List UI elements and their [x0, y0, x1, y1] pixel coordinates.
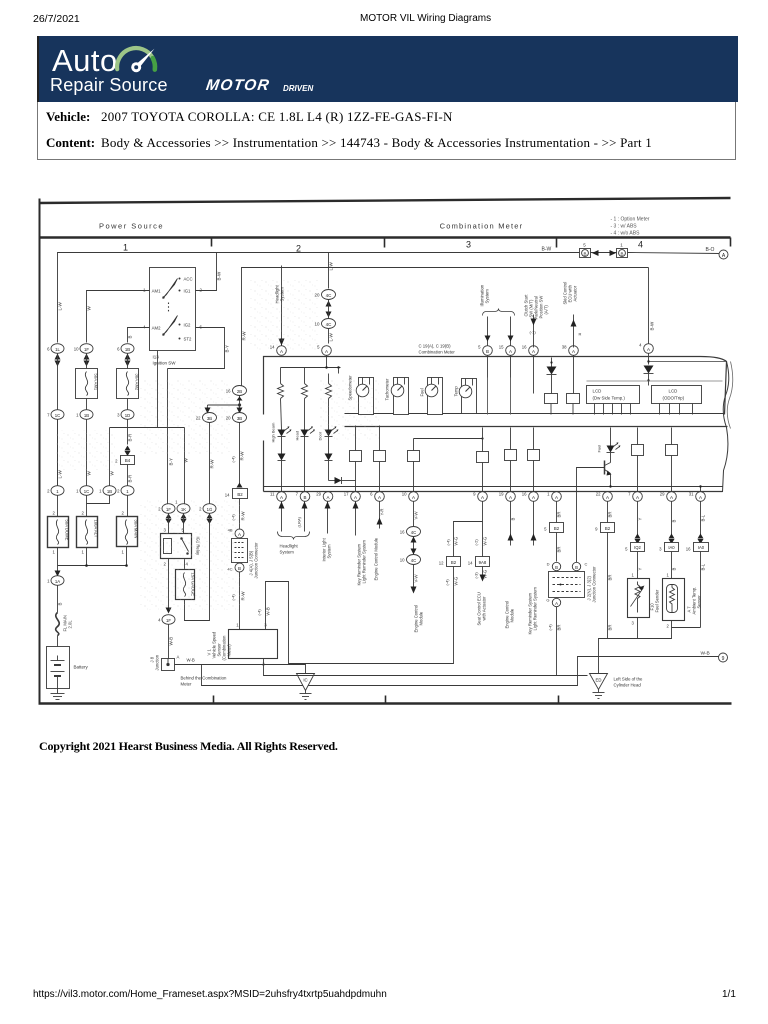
fuse 50A AM1: [76, 369, 99, 399]
svg-text:7: 7: [296, 492, 299, 497]
wire 86 down: [86, 354, 88, 369]
svg-text:B: B: [672, 568, 677, 571]
wire J45 to VSS: [239, 572, 241, 630]
svg-text:1C: 1C: [84, 489, 90, 494]
svg-text:1: 1: [123, 243, 128, 253]
svg-text:B: B: [58, 602, 63, 605]
svg-text:Cylinder Head: Cylinder Head: [614, 683, 642, 688]
svg-text:4C: 4C: [411, 558, 417, 563]
arrow into oval 1F bottom: [166, 608, 172, 614]
bottom circle 19 A: [499, 492, 516, 502]
junction box A J8: [162, 655, 180, 671]
footer url: [33, 989, 387, 1000]
title band top line: [39, 198, 731, 203]
svg-text:IG1: IG1: [184, 289, 192, 294]
ecm wire y-r: [374, 502, 385, 581]
lcd dual side temp: [587, 386, 640, 415]
wire to FL MAIN: [57, 586, 59, 613]
svg-text:A: A: [636, 495, 639, 500]
svg-text:A: A: [509, 495, 512, 500]
svg-text:B4: B4: [125, 458, 131, 463]
svg-text:Junction Connector: Junction Connector: [592, 566, 597, 603]
wire 109 join 86: [87, 496, 110, 504]
svg-text:IA0: IA0: [668, 545, 675, 550]
svg-text:15: 15: [499, 345, 504, 350]
arrow into oval 1A: [55, 571, 61, 577]
svg-text:System: System: [327, 544, 332, 558]
svg-text:3: 3: [117, 413, 120, 418]
svg-text:B2: B2: [605, 526, 611, 531]
fuel sender column: [625, 502, 644, 579]
svg-text:4: 4: [158, 618, 161, 623]
svg-text:2B: 2B: [237, 389, 242, 394]
svg-text:2: 2: [117, 489, 120, 494]
wire 57 row2 down: [57, 420, 59, 486]
svg-text:(Dw Side Temp.): (Dw Side Temp.): [593, 396, 626, 401]
oval B J45 bottom: [227, 563, 244, 572]
column tick 2-3: [384, 239, 386, 248]
svg-text:B-Y: B-Y: [225, 345, 230, 353]
lcd odo trip: [652, 386, 702, 415]
svg-text:1: 1: [47, 579, 50, 584]
svg-text:B-W: B-W: [217, 271, 222, 281]
svg-text:1A: 1A: [55, 579, 60, 584]
svg-text:6: 6: [370, 492, 373, 497]
led door: [318, 427, 339, 454]
svg-text:B-L: B-L: [701, 563, 706, 570]
svg-text:100A ALT: 100A ALT: [94, 520, 99, 538]
svg-text:Module: Module: [419, 611, 424, 625]
bottom tick 3: [558, 696, 560, 704]
svg-text:(LRA): (LRA): [297, 516, 302, 527]
svg-text:3: 3: [659, 547, 662, 552]
v-w column ovals: [400, 502, 424, 633]
svg-text:A: A: [326, 495, 329, 500]
svg-text:LCD: LCD: [669, 389, 678, 394]
fuse 15A GAUGE: [176, 570, 196, 600]
title band bottom line: [39, 236, 731, 238]
svg-text:B2: B2: [451, 560, 457, 565]
svg-text:4C: 4C: [326, 293, 333, 298]
oval 1A: [47, 576, 64, 586]
svg-text:38: 38: [562, 345, 567, 350]
svg-text:B-R: B-R: [128, 433, 133, 442]
svg-text:2: 2: [122, 511, 125, 516]
svg-text:A: A: [572, 349, 575, 354]
svg-text:1: 1: [122, 550, 125, 555]
label V1 Vehicle Speed Sensor: [207, 631, 232, 660]
svg-text:1F: 1F: [166, 618, 171, 623]
svg-text:2.0L: 2.0L: [68, 620, 73, 629]
svg-text:System: System: [280, 550, 295, 555]
circle 5 B: [478, 345, 492, 356]
svg-text:3: 3: [466, 240, 471, 250]
connector box 5: [580, 243, 599, 258]
oval row3 1B: [99, 486, 116, 496]
svg-text:Head: Head: [295, 431, 300, 441]
svg-text:B2: B2: [237, 492, 243, 497]
double arrow above B4: [125, 446, 131, 457]
svg-text:V-W: V-W: [414, 573, 419, 582]
svg-text:1: 1: [76, 489, 79, 494]
svg-text:16: 16: [686, 547, 691, 552]
svg-text:1B: 1B: [125, 347, 130, 352]
svg-text:W-G: W-G: [454, 536, 459, 545]
oval 4 1F bottom: [158, 615, 175, 625]
ground triangle IC: [297, 674, 315, 700]
logo Auto Repair Source: [52, 43, 118, 79]
wires into relay: [168, 514, 170, 534]
svg-text:B: B: [128, 335, 133, 338]
svg-text:4: 4: [639, 343, 642, 348]
svg-text:B: B: [303, 495, 306, 500]
svg-text:W-B: W-B: [187, 658, 195, 663]
svg-text:R-W: R-W: [210, 459, 215, 469]
svg-text:B-O: B-O: [706, 247, 715, 253]
meter lower left edge: [263, 441, 265, 492]
ignition terminal dots: [179, 278, 181, 340]
column tick 1-2: [211, 238, 213, 247]
svg-text:16: 16: [400, 530, 405, 535]
svg-text:12: 12: [439, 561, 444, 566]
arrow under oval 1F: [84, 354, 90, 367]
svg-text:5: 5: [478, 345, 481, 350]
svg-text:V-W: V-W: [414, 510, 419, 519]
svg-text:- 1 : Option Meter: - 1 : Option Meter: [611, 217, 650, 223]
svg-text:B: B: [583, 252, 586, 257]
svg-text:2: 2: [115, 459, 118, 464]
svg-text:W-B: W-B: [169, 637, 174, 646]
svg-text:BR: BR: [608, 625, 613, 631]
circle 38 A: [562, 345, 579, 356]
oval connector 10 4C: [314, 319, 335, 329]
svg-text:1: 1: [620, 243, 623, 248]
svg-text:W-G: W-G: [483, 536, 488, 545]
svg-text:B: B: [555, 565, 558, 570]
bottom circle 16 A: [522, 492, 539, 502]
svg-text:Power Source: Power Source: [99, 222, 164, 231]
headlight system wires below: [278, 502, 310, 555]
svg-text:BR: BR: [557, 512, 562, 518]
transistor q1: [605, 453, 612, 488]
svg-text:C: C: [585, 562, 588, 567]
connector box 14 B2: [225, 489, 248, 499]
wire second feed: [242, 268, 649, 387]
svg-text:2: 2: [200, 288, 203, 293]
svg-text:9: 9: [473, 492, 476, 497]
svg-text:A: A: [532, 349, 535, 354]
wire IG1 right B-W: [196, 253, 217, 291]
wire AM2 to fuse column: [128, 328, 150, 343]
circle 4 A right: [639, 343, 653, 354]
svg-text:1: 1: [632, 573, 635, 578]
fuse 30A MAIN: [117, 511, 139, 555]
lower squares col 510: [505, 428, 517, 492]
connector circle A top right: [719, 250, 728, 259]
meter right torn edge: [723, 362, 729, 493]
wire R-W column down: [209, 423, 211, 504]
diagram bottom border: [39, 702, 732, 704]
svg-text:16: 16: [522, 492, 527, 497]
svg-text:IG2: IG2: [184, 323, 192, 328]
svg-text:1: 1: [236, 623, 239, 628]
double arrow above B2: [237, 483, 243, 494]
svg-text:A: A: [412, 495, 415, 500]
svg-text:1L: 1L: [55, 347, 60, 352]
connector box 12 B2: [439, 557, 461, 593]
diode door lower: [325, 454, 333, 481]
oval 6 1B: [117, 344, 134, 354]
svg-text:1: 1: [82, 550, 85, 555]
wire 127 fuse to oval: [127, 399, 129, 410]
svg-text:C 19(A), C 19(B): C 19(A), C 19(B): [419, 344, 452, 349]
oval row3 1: [47, 486, 64, 496]
arrow under oval 1B: [125, 354, 131, 367]
svg-text:B-L: B-L: [701, 514, 706, 521]
wire collector fuses: [58, 548, 87, 566]
bottom circle 10 A: [402, 492, 419, 502]
svg-text:6: 6: [117, 347, 120, 352]
svg-text:Y-R: Y-R: [380, 508, 385, 515]
wire IG2 right B-Y: [168, 328, 225, 369]
wire 127 to fuse: [127, 496, 129, 517]
svg-text:IQ2: IQ2: [634, 545, 641, 550]
svg-text:Ignition SW: Ignition SW: [153, 361, 177, 366]
oval 2 1G: [199, 504, 216, 514]
bottom circle 17 A: [344, 492, 361, 502]
junction connector J4 J5 box: [232, 539, 248, 563]
connector box 14 9A8: [468, 557, 490, 626]
svg-text:ACC: ACC: [184, 277, 193, 282]
diode right feed: [587, 354, 726, 386]
svg-text:4C: 4C: [326, 322, 333, 327]
svg-text:Combination Meter: Combination Meter: [440, 222, 524, 231]
svg-text:A: A: [354, 495, 357, 500]
svg-text:4: 4: [143, 325, 146, 330]
label Behind the Combination Meter: [181, 676, 227, 687]
oval 3 1D row2: [117, 410, 134, 420]
svg-text:1C: 1C: [55, 413, 61, 418]
page header date: [33, 13, 80, 25]
svg-text:IA0: IA0: [698, 545, 705, 550]
wire to connector A right: [628, 253, 720, 254]
led head: [295, 427, 316, 492]
svg-text:1: 1: [667, 573, 670, 578]
wire to battery: [57, 636, 59, 656]
feed wires into gauges: [488, 356, 511, 415]
wire W column down: [184, 428, 186, 504]
lower square col 413: [408, 437, 484, 491]
svg-text:L-W: L-W: [329, 332, 334, 341]
stub to IC ground: [202, 665, 306, 674]
svg-text:W-G: W-G: [483, 569, 488, 578]
svg-text:5: 5: [625, 547, 628, 552]
svg-text:22: 22: [596, 492, 601, 497]
svg-text:6: 6: [47, 347, 50, 352]
wire drop B-W to meter right: [648, 268, 650, 344]
tachometer gauge: [385, 378, 409, 415]
svg-text:1: 1: [99, 489, 102, 494]
svg-text:Light Reminder System: Light Reminder System: [533, 586, 538, 630]
svg-text:2: 2: [53, 511, 56, 516]
lower squares col 533: [528, 428, 540, 492]
label I13 Ignition SW: [153, 355, 177, 366]
arrows between ovals: [326, 301, 332, 318]
navy banner: [37, 36, 738, 102]
svg-text:W: W: [110, 471, 115, 476]
wire relay out left: [168, 559, 170, 613]
svg-text:(-4): (-4): [257, 609, 262, 616]
oval 20 3B: [226, 413, 247, 423]
svg-text:9A8: 9A8: [479, 560, 487, 565]
bottom circle 1 A: [547, 492, 561, 502]
wire main feed top: [58, 253, 580, 343]
svg-text:High Beam: High Beam: [271, 422, 276, 442]
lower square col 355: [350, 426, 362, 481]
svg-text:IC: IC: [303, 678, 307, 683]
svg-text:9: 9: [595, 527, 598, 532]
svg-text:W-B: W-B: [701, 651, 710, 657]
svg-text:(-3): (-3): [474, 572, 479, 579]
arrows below 2B: [205, 397, 243, 414]
vehicle/content info box: [37, 102, 736, 160]
oval 6 1L: [47, 344, 64, 354]
wire B-Y column down: [167, 369, 169, 504]
svg-text:(-4): (-4): [548, 624, 553, 631]
svg-text:- 3 : w/ ABS: - 3 : w/ ABS: [611, 224, 638, 230]
svg-text:B-W: B-W: [650, 321, 655, 331]
svg-text:ED: ED: [596, 678, 602, 683]
svg-text:4C: 4C: [411, 530, 417, 535]
circle 5 A illum: [317, 345, 331, 356]
svg-text:(-2): (-2): [474, 539, 479, 546]
skid control ecu wire: [563, 282, 582, 348]
svg-text:B: B: [511, 518, 516, 521]
svg-text:(ODO/Trip): (ODO/Trip): [663, 396, 685, 401]
svg-text:(-4): (-4): [446, 539, 451, 546]
wire 86 row2 down: [86, 420, 88, 486]
lower square col 379: [374, 426, 386, 492]
svg-text:Fuel: Fuel: [597, 445, 602, 453]
svg-text:B: B: [486, 349, 489, 354]
svg-text:- 4 : w/o ABS: - 4 : w/o ABS: [611, 231, 641, 237]
ground below battery: [51, 689, 65, 700]
svg-text:LCD: LCD: [593, 389, 602, 394]
svg-text:Temp: Temp: [454, 386, 459, 397]
svg-text:A: A: [647, 347, 650, 352]
svg-text:Fuel: Fuel: [420, 388, 425, 396]
svg-text:30A AM2: 30A AM2: [135, 374, 140, 391]
wire 86 fuse to oval: [86, 399, 88, 410]
svg-text:Headlight: Headlight: [280, 544, 299, 549]
illumination system brace wires: [480, 284, 515, 345]
wire top feed right half: [591, 252, 617, 254]
page header title: [360, 13, 491, 24]
svg-text:9: 9: [722, 656, 725, 662]
junction dots: [85, 564, 128, 567]
circle 14 A headlight: [270, 345, 287, 356]
svg-text:Junction Connector: Junction Connector: [254, 542, 259, 579]
wire 86 to fuse: [86, 496, 88, 517]
headlight system arrow: [275, 266, 285, 346]
svg-text:29: 29: [316, 492, 321, 497]
svg-text:BR: BR: [608, 575, 613, 581]
note option meter: [611, 217, 650, 237]
svg-text:17: 17: [344, 492, 349, 497]
svg-text:(-1): (-1): [530, 330, 537, 335]
clutch start sw wire: [524, 294, 549, 348]
meter bottom edge double: [264, 486, 723, 488]
svg-text:BR: BR: [557, 625, 562, 631]
svg-text:D: D: [547, 562, 550, 567]
IG1 relay box: [161, 528, 201, 567]
svg-text:B2: B2: [554, 526, 560, 531]
svg-text:BR: BR: [608, 512, 613, 518]
fuel gauge: [420, 378, 443, 415]
MOTOR driven logo: [205, 77, 271, 95]
key reminder wire: [353, 502, 367, 586]
oval 10 1F: [74, 344, 93, 354]
svg-text:10: 10: [74, 347, 79, 352]
diode high beam lower: [278, 454, 286, 492]
svg-text:Battery: Battery: [74, 665, 89, 670]
illumination resistor 3: [326, 374, 332, 430]
svg-text:Left Side of the: Left Side of the: [614, 677, 644, 682]
fuse 100A ALT: [77, 511, 99, 555]
oval 1 1B row2: [76, 410, 93, 420]
svg-text:R-W: R-W: [242, 331, 247, 341]
fusible link FL MAIN 2.0L: [56, 613, 73, 636]
ambient temp column: [659, 502, 678, 579]
svg-text:W: W: [87, 306, 92, 311]
diagram left border: [39, 199, 41, 705]
B-L column: [672, 502, 709, 628]
svg-text:Engine Control Module: Engine Control Module: [374, 537, 379, 580]
svg-text:29: 29: [660, 492, 665, 497]
ignition terminal labels: [143, 277, 202, 342]
svg-text:1B: 1B: [107, 489, 112, 494]
svg-text:Y: Y: [638, 518, 643, 521]
svg-text:30A MAIN: 30A MAIN: [134, 520, 139, 539]
svg-text:7: 7: [628, 492, 631, 497]
ignition switch I13 box: [150, 268, 196, 351]
svg-text:(-4): (-4): [231, 456, 236, 463]
svg-text:ST2: ST2: [184, 337, 192, 342]
svg-text:2: 2: [82, 511, 85, 516]
illumination resistor 2: [302, 368, 308, 430]
svg-text:50A DOME: 50A DOME: [65, 520, 70, 541]
svg-text:16: 16: [522, 345, 527, 350]
svg-text:R-W: R-W: [241, 511, 246, 521]
svg-text:B-R: B-R: [128, 474, 133, 483]
svg-text:W-G: W-G: [454, 576, 459, 585]
wire 239 oval down: [239, 423, 241, 485]
lower squares col 482: [477, 428, 489, 492]
horizontal diode to 355: [329, 477, 356, 492]
meter lower section top: [345, 426, 728, 428]
svg-text:L-W: L-W: [58, 301, 63, 310]
meter outline upper section: [264, 357, 727, 415]
bottom circle 11 A: [270, 492, 286, 502]
svg-text:(A/T): (A/T): [544, 305, 549, 315]
svg-text:10: 10: [402, 492, 407, 497]
lower squares col 671: [666, 428, 678, 492]
svg-text:6: 6: [200, 325, 203, 330]
svg-text:W-B: W-B: [266, 607, 271, 615]
svg-text:A: A: [532, 495, 535, 500]
led high beam: [271, 422, 292, 453]
svg-text:10: 10: [400, 558, 405, 563]
